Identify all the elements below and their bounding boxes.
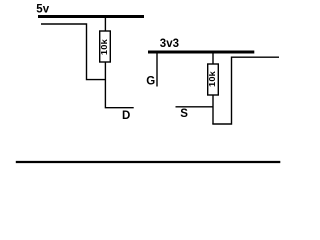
label 3v3 (160, 38, 179, 50)
wire resistor R1 top lead (104, 17, 106, 32)
resistor R2 value label 10k (208, 71, 217, 87)
label D (drain terminal) (122, 110, 130, 122)
svg-text:5v: 5v (36, 4, 49, 16)
power rail 3V3 (148, 51, 254, 54)
resistor R1 value label 10k (99, 39, 108, 55)
wire resistor R2 bottom lead (212, 95, 214, 124)
resistor R1 10k body (100, 31, 111, 62)
label 5v (36, 4, 49, 16)
svg-text:G: G (146, 76, 155, 88)
wire gate stub (156, 54, 158, 87)
wire from 3v3 node right and down to source node (212, 57, 279, 124)
wire bottom bus line (16, 161, 281, 163)
wire resistor R2 top lead (212, 52, 214, 65)
svg-text:3v3: 3v3 (160, 38, 179, 50)
svg-text:10k: 10k (99, 39, 108, 55)
svg-text:D: D (122, 110, 130, 122)
wire drain branch (horizontal under 5v rail, down, to resistor lead) (41, 24, 105, 80)
wire resistor R1 bottom lead down to D corner (105, 62, 133, 108)
label S (source terminal) (180, 108, 188, 120)
resistor R2 10k body (208, 64, 219, 95)
label G (gate terminal) (146, 76, 155, 88)
svg-text:S: S (180, 108, 188, 120)
wire source stub (176, 106, 214, 108)
svg-text:10k: 10k (208, 71, 217, 87)
power rail 5V (38, 15, 144, 18)
